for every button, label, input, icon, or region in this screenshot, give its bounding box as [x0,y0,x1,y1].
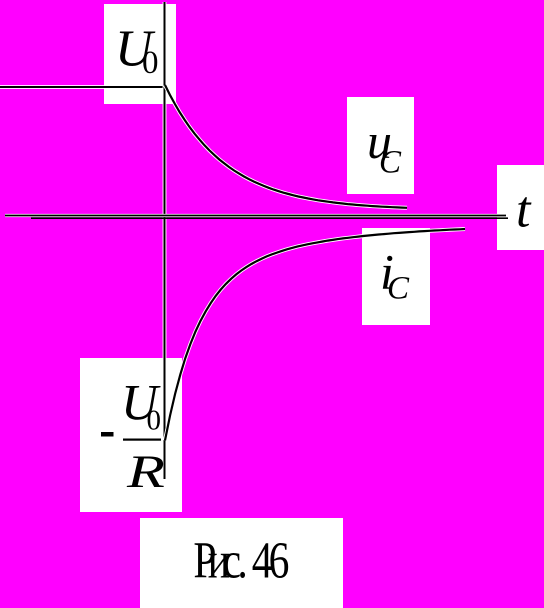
label box uC [347,97,414,194]
svg-text:C: C [387,271,410,307]
iC current curve [165,229,465,440]
wire U0 level line [0,85,165,89]
svg-text:C: C [379,145,402,181]
horizontal t axis lower line [31,217,508,219]
svg-text:Рис.46: Рис.46 [193,532,289,589]
horizontal t axis upper line [5,214,506,217]
label box iC [362,228,430,325]
vertical axis [163,2,167,479]
fraction bar of U0/R [123,439,161,441]
uC discharge curve [165,85,407,208]
label box U0 [104,4,176,104]
caption box [140,518,343,608]
label box -U0/R [80,358,182,512]
label box t [497,165,544,250]
svg-text:0: 0 [147,405,162,437]
svg-text:t: t [516,182,532,239]
svg-text:R: R [126,445,165,497]
minus sign of -U0/R [101,432,114,437]
svg-text:0: 0 [142,45,159,81]
